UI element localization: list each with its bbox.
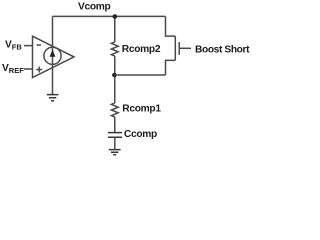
svg-text:VREF: VREF [2, 63, 24, 75]
svg-text:Vcomp: Vcomp [78, 2, 111, 13]
svg-text:Boost Short: Boost Short [195, 45, 250, 56]
svg-text:Rcomp1: Rcomp1 [122, 104, 161, 115]
svg-text:VFB: VFB [5, 40, 22, 52]
svg-text:Ccomp: Ccomp [124, 129, 157, 140]
svg-text:Rcomp2: Rcomp2 [122, 44, 161, 55]
